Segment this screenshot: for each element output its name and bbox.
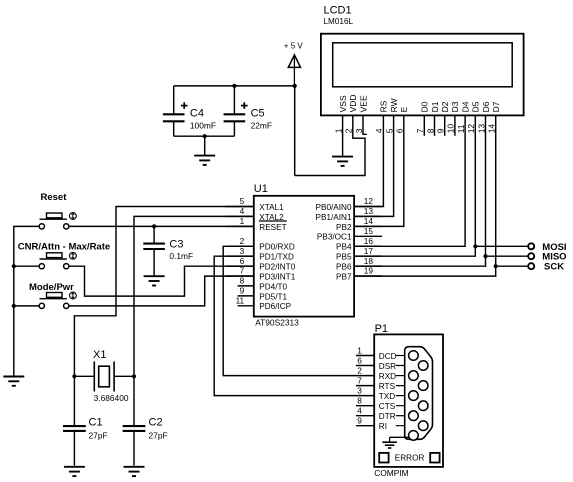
wire to terminal SCK xyxy=(496,265,529,267)
wire +5V rail to C4/C5 xyxy=(174,85,295,87)
U1 pin 11 PD6/ICP stub xyxy=(238,305,255,307)
svg-text:CTS: CTS xyxy=(379,402,396,411)
wire LCD D7 to PB7 xyxy=(354,115,496,276)
terminal MOSI xyxy=(528,243,534,249)
wire LCD RS to PB0 xyxy=(354,115,383,206)
ground under C4/C5 xyxy=(194,155,215,157)
svg-text:11: 11 xyxy=(236,296,245,306)
svg-text:27pF: 27pF xyxy=(149,431,168,441)
LCD pin stub D0 xyxy=(423,115,425,135)
junction MISO tap xyxy=(483,254,487,258)
svg-text:18: 18 xyxy=(364,256,374,266)
capacitor C2 leads xyxy=(133,376,135,426)
svg-text:P1: P1 xyxy=(375,323,388,335)
svg-text:PD4/T0: PD4/T0 xyxy=(259,282,287,291)
svg-text:Mode/Pwr: Mode/Pwr xyxy=(29,282,74,293)
U1 pin 5 XTAL1 stub xyxy=(226,206,255,208)
U1 pin 15 PB3/OC1 stub xyxy=(354,235,382,237)
svg-text:PB1/AIN1: PB1/AIN1 xyxy=(316,213,352,222)
junction X1 right xyxy=(132,374,136,378)
P1 D-sub outline xyxy=(405,347,433,440)
ground P1 shell xyxy=(382,441,397,443)
svg-text:C4: C4 xyxy=(190,108,204,120)
LCD pin stub D2 xyxy=(444,115,446,135)
capacitor C2 plates xyxy=(123,425,146,427)
svg-text:PD1/TXD: PD1/TXD xyxy=(259,253,294,262)
push button CNR/Attn - Max/Rate xyxy=(39,252,76,268)
wire crystal right lead xyxy=(114,375,134,377)
wire XTAL1 to crystal xyxy=(74,207,254,377)
svg-text:PD5/T1: PD5/T1 xyxy=(259,292,287,301)
svg-text:X1: X1 xyxy=(93,349,106,361)
LCD display LCD1 (LM016L) body xyxy=(321,34,524,116)
svg-text:VDD: VDD xyxy=(348,94,358,112)
P1 internal lead DCD xyxy=(396,355,409,357)
svg-text:D1: D1 xyxy=(430,101,440,112)
P1 pin 9 RI stub xyxy=(356,425,374,427)
svg-text:PB0/AIN0: PB0/AIN0 xyxy=(316,203,352,212)
U1 pin 2 PD0/RXD stub xyxy=(226,245,255,247)
svg-text:C1: C1 xyxy=(89,416,103,428)
svg-text:RI: RI xyxy=(379,422,387,431)
svg-text:6: 6 xyxy=(240,256,245,266)
svg-text:DCD: DCD xyxy=(379,352,397,361)
svg-text:2: 2 xyxy=(240,236,245,246)
P1 internal lead RTS xyxy=(396,385,419,387)
wire VDD loop right riser xyxy=(364,138,366,176)
IC U1 AT90S2313 body xyxy=(254,196,354,317)
svg-text:PB4: PB4 xyxy=(336,243,352,252)
P1 internal lead RI xyxy=(396,425,419,427)
U1 pin 12 PB0/AIN0 stub xyxy=(354,206,382,208)
svg-text:AT90S2313: AT90S2313 xyxy=(255,318,299,328)
U1 pin 6 PD2/INT0 stub xyxy=(226,265,255,267)
junction rail Mode xyxy=(12,304,16,308)
svg-text:6: 6 xyxy=(357,355,362,365)
wire VDD jog xyxy=(353,137,366,139)
svg-text:C3: C3 xyxy=(169,239,183,251)
junction at ground tap xyxy=(203,134,207,138)
svg-text:27pF: 27pF xyxy=(89,431,108,441)
U1 pin 7 PD3/INT1 stub xyxy=(226,275,255,277)
svg-text:ERROR: ERROR xyxy=(395,453,425,462)
svg-text:PD6/ICP: PD6/ICP xyxy=(259,302,291,311)
connector P1 COMPIM body xyxy=(374,334,443,467)
junction rail CNR xyxy=(12,264,16,268)
svg-text:VSS: VSS xyxy=(338,95,348,112)
svg-text:PB6: PB6 xyxy=(336,263,352,272)
wire +5V node down xyxy=(294,86,296,176)
svg-text:8: 8 xyxy=(357,396,362,406)
svg-text:17: 17 xyxy=(364,246,374,256)
U1 pin 19 PB7 stub xyxy=(354,275,382,277)
svg-text:DTR: DTR xyxy=(379,412,396,421)
wire LCD E to PB2 xyxy=(354,115,404,226)
P1 pin 7 RTS stub xyxy=(356,385,374,387)
svg-text:1: 1 xyxy=(357,345,362,355)
terminal MISO xyxy=(528,253,534,259)
wire CNR left terminal xyxy=(14,265,39,267)
svg-text:16: 16 xyxy=(364,236,374,246)
P1 pin 1 DCD stub xyxy=(356,355,374,357)
svg-text:RS: RS xyxy=(379,100,389,112)
ground under C2 xyxy=(124,466,145,468)
U1 pin 17 PB5 stub xyxy=(354,255,382,257)
wire ground stem xyxy=(204,136,206,155)
wire to terminal MISO xyxy=(486,255,529,257)
terminal SCK xyxy=(528,263,534,269)
wire LCD pin1 VSS lead xyxy=(342,115,344,155)
svg-text:15: 15 xyxy=(364,226,374,236)
svg-text:1: 1 xyxy=(240,216,245,226)
junction C3 tap xyxy=(152,224,156,228)
svg-text:XTAL1: XTAL1 xyxy=(259,203,284,212)
power +5V symbol xyxy=(288,55,300,86)
svg-text:D4: D4 xyxy=(460,101,470,112)
svg-text:4: 4 xyxy=(240,206,245,216)
svg-text:7: 7 xyxy=(357,375,362,385)
svg-text:PB5: PB5 xyxy=(336,253,352,262)
wire LCD pin2 VDD lead xyxy=(352,115,354,138)
capacitor C1 leads xyxy=(73,376,75,426)
wire left rail xyxy=(14,226,39,375)
wire Mode left terminal xyxy=(14,305,39,307)
wire PD1/TXD to P1 TXD xyxy=(214,256,374,395)
svg-text:Reset: Reset xyxy=(41,192,68,203)
svg-text:9: 9 xyxy=(240,286,245,296)
P1 D-sub holes xyxy=(409,351,428,441)
P1 internal lead DTR xyxy=(396,415,409,417)
wire LCD RW to PB1 xyxy=(354,115,394,216)
svg-text:D2: D2 xyxy=(440,101,450,112)
svg-text:VEE: VEE xyxy=(358,95,368,112)
svg-text:PB2: PB2 xyxy=(336,223,352,232)
svg-text:PD0/RXD: PD0/RXD xyxy=(259,243,295,252)
C5 polarity plus xyxy=(241,105,248,107)
P1 pin 4 DTR stub xyxy=(356,415,374,417)
svg-text:RTS: RTS xyxy=(379,382,396,391)
ground under C3 xyxy=(144,275,165,277)
U1 pin 18 PB6 stub xyxy=(354,265,382,267)
capacitor C4 plates xyxy=(163,113,185,115)
U1 pin 3 PD1/TXD stub xyxy=(226,255,255,257)
wire Mode button to PD3/INT1 xyxy=(69,276,254,306)
wire LCD D4 to PB4 xyxy=(354,115,465,246)
svg-text:PD2/INT0: PD2/INT0 xyxy=(259,263,295,272)
junction at C5 tap xyxy=(232,84,236,88)
capacitor C5 leads xyxy=(233,86,235,114)
junction SCK tap xyxy=(494,264,498,268)
crystal X1 xyxy=(94,361,114,391)
svg-text:D5: D5 xyxy=(471,101,481,112)
svg-text:SCK: SCK xyxy=(544,262,564,273)
svg-text:5: 5 xyxy=(240,196,245,206)
P1 internal lead RXD xyxy=(396,375,409,377)
P1 internal lead TXD xyxy=(396,395,409,397)
svg-text:100mF: 100mF xyxy=(190,120,216,130)
P1 pin 8 CTS stub xyxy=(356,405,374,407)
wire VDD loop bottom xyxy=(295,175,365,177)
wire to terminal MOSI xyxy=(475,245,528,247)
wire LCD D6 to PB6 xyxy=(354,115,485,266)
svg-text:3: 3 xyxy=(240,246,245,256)
U1 pin 1 RESET stub xyxy=(226,225,255,227)
svg-text:12: 12 xyxy=(364,196,374,206)
LCD pin stub D1 xyxy=(434,115,436,135)
svg-text:D3: D3 xyxy=(450,101,460,112)
svg-text:4: 4 xyxy=(357,406,362,416)
svg-text:8: 8 xyxy=(240,276,245,286)
U1 pin 16 PB4 stub xyxy=(354,245,382,247)
wire crystal left lead xyxy=(74,375,94,377)
svg-text:C5: C5 xyxy=(251,108,265,120)
svg-text:RXD: RXD xyxy=(379,372,396,381)
push button Reset xyxy=(39,213,76,229)
svg-text:LM016L: LM016L xyxy=(324,17,354,26)
svg-text:3: 3 xyxy=(357,385,362,395)
P1 error indicator left square xyxy=(379,453,388,463)
wire LCD D5 to PB5 xyxy=(354,115,475,256)
junction MOSI tap xyxy=(473,244,477,248)
svg-text:LCD1: LCD1 xyxy=(324,5,352,17)
wire LCD pin3 VEE lead xyxy=(363,115,367,134)
P1 pin 6 DSR stub xyxy=(356,365,374,367)
U1 pin 13 PB1/AIN1 stub xyxy=(354,215,382,217)
wire PD0/RXD to P1 RXD xyxy=(223,246,374,375)
ground left rail xyxy=(3,376,24,378)
P1 shell ground lead xyxy=(390,436,409,438)
svg-text:TXD: TXD xyxy=(379,392,395,401)
RESET overline xyxy=(259,220,287,222)
svg-text:C2: C2 xyxy=(149,416,163,428)
junction at +5V node xyxy=(293,84,297,88)
P1 internal lead CTS xyxy=(396,405,419,407)
capacitor C5 plates xyxy=(224,113,246,115)
push button Mode/Pwr xyxy=(39,292,76,308)
svg-text:9: 9 xyxy=(357,416,362,426)
C4 polarity plus xyxy=(181,105,188,107)
svg-text:D6: D6 xyxy=(481,101,491,112)
svg-text:U1: U1 xyxy=(254,183,268,195)
svg-text:3.686400: 3.686400 xyxy=(94,393,129,403)
U1 pin 8 PD4/T0 stub xyxy=(238,285,255,287)
wire C4 to C5 bottom xyxy=(174,135,235,137)
svg-text:D0: D0 xyxy=(420,101,430,112)
U1 pin 4 XTAL2 stub xyxy=(226,215,255,217)
svg-text:CNR/Attn - Max/Rate: CNR/Attn - Max/Rate xyxy=(18,242,110,253)
svg-text:RW: RW xyxy=(389,98,399,112)
P1 error indicator right square xyxy=(430,453,439,463)
svg-text:0.1mF: 0.1mF xyxy=(169,251,193,261)
wire CNR button to PD2/INT0 xyxy=(69,266,254,296)
svg-text:14: 14 xyxy=(364,216,374,226)
P1 internal lead DSR xyxy=(396,365,419,367)
svg-text:PD3/INT1: PD3/INT1 xyxy=(259,272,295,281)
svg-text:22mF: 22mF xyxy=(251,120,272,130)
ground under LCD VSS xyxy=(332,156,353,158)
ground under C1 xyxy=(64,466,85,468)
svg-text:2: 2 xyxy=(357,365,362,375)
wire RESET row xyxy=(69,225,254,227)
capacitor C1 plates xyxy=(63,425,86,427)
LCD pin stub D3 xyxy=(454,115,456,135)
svg-text:D7: D7 xyxy=(491,101,501,112)
U1 pin 14 PB2 stub xyxy=(354,225,382,227)
svg-text:19: 19 xyxy=(364,266,374,276)
svg-text:E: E xyxy=(399,106,409,112)
svg-text:13: 13 xyxy=(364,206,374,216)
svg-text:+ 5 V: + 5 V xyxy=(284,42,304,51)
svg-text:7: 7 xyxy=(240,266,245,276)
wire XTAL2 to crystal xyxy=(134,216,254,376)
svg-text:COMPIM: COMPIM xyxy=(374,468,408,478)
capacitor C4 leads xyxy=(173,86,175,114)
svg-text:RESET: RESET xyxy=(259,223,286,232)
U1 pin 9 PD5/T1 stub xyxy=(238,295,255,297)
svg-text:DSR: DSR xyxy=(379,362,396,371)
svg-text:PB3/OC1: PB3/OC1 xyxy=(317,233,352,242)
junction X1 left xyxy=(72,374,76,378)
capacitor C3 plates xyxy=(143,243,165,245)
svg-text:PB7: PB7 xyxy=(336,272,352,281)
capacitor C3 leads xyxy=(153,226,155,242)
